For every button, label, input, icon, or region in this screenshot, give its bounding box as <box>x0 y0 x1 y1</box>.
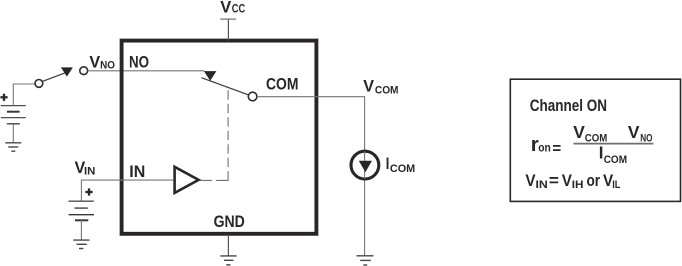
formula r_on = <box>531 134 561 158</box>
svg-text:COM: COM <box>585 133 608 145</box>
battery B2 <box>69 201 94 220</box>
current source arrow <box>359 161 372 173</box>
formula fraction bar <box>574 143 654 145</box>
ground GND2 <box>73 240 89 248</box>
svg-text:NO: NO <box>100 60 115 72</box>
svg-text:V: V <box>573 122 585 142</box>
note box <box>510 79 680 201</box>
svg-text:NO: NO <box>129 53 149 71</box>
switch S1 arrowhead <box>61 67 73 76</box>
analog switch S2 COM circle <box>248 92 257 101</box>
svg-text:COM: COM <box>390 163 415 175</box>
IC U1 box <box>122 41 317 234</box>
switch S1 blade <box>43 73 66 82</box>
buffer driver A1 <box>175 167 199 193</box>
formula denominator ICOM <box>599 142 627 166</box>
ground GND4 (below U1) <box>220 256 236 265</box>
svg-text:on: on <box>538 142 551 154</box>
battery B1 (VNO source) <box>1 106 26 124</box>
switch S1 pole circle <box>35 80 43 88</box>
wire VIN to IN pin <box>81 180 173 201</box>
current source ICOM circle <box>351 151 379 179</box>
svg-text:IN: IN <box>129 163 145 181</box>
svg-text:IN: IN <box>84 166 95 178</box>
svg-text:COM: COM <box>266 76 298 94</box>
svg-text:or: or <box>587 172 601 190</box>
node VIN label <box>75 159 96 178</box>
power VCC label <box>220 0 245 16</box>
svg-text:Channel ON: Channel ON <box>530 97 607 115</box>
svg-text:COM: COM <box>375 85 399 97</box>
analog switch S2 arrowhead <box>204 71 217 81</box>
ground GND3 (below current source) <box>357 256 374 265</box>
svg-text:V: V <box>89 54 100 72</box>
svg-text:V: V <box>220 0 231 16</box>
formula numerator VNO <box>628 122 653 145</box>
svg-text:=: = <box>549 172 559 190</box>
formula numerator VCOM <box>573 122 607 145</box>
battery B2 (VIN source) plus sign <box>85 188 92 195</box>
svg-text:IH: IH <box>572 179 584 191</box>
svg-text:IN: IN <box>536 179 548 191</box>
svg-text:V: V <box>628 122 640 142</box>
svg-text:COM: COM <box>604 154 627 166</box>
svg-text:GND: GND <box>214 213 245 231</box>
label ICOM <box>386 155 415 175</box>
svg-text:CC: CC <box>232 4 246 16</box>
wire VCC to U1 top <box>227 19 229 40</box>
ground GND1 <box>5 143 21 151</box>
current source inner wire <box>364 152 366 179</box>
svg-text:V: V <box>525 172 535 190</box>
wire battery B1 to switch pole <box>13 84 35 106</box>
node VCOM label <box>363 78 398 97</box>
node VNO label <box>89 54 115 72</box>
dashed control line from buffer to switch <box>200 90 228 180</box>
wire battery B1 to ground <box>12 124 14 143</box>
note text VIN = VIH or VIL <box>525 172 620 191</box>
svg-text:I: I <box>386 155 390 173</box>
VCC terminal bar <box>220 18 236 20</box>
wire COM to VCOM corner and down to current source <box>257 97 365 256</box>
switch S1 throw circle (node VNO) <box>80 67 88 75</box>
wire U1 GND pin to ground <box>227 236 229 256</box>
wire battery B2 to ground <box>80 220 82 240</box>
svg-text:V: V <box>363 78 374 96</box>
svg-text:=: = <box>552 141 561 158</box>
battery B1 plus sign <box>0 94 7 101</box>
svg-text:NO: NO <box>640 133 653 145</box>
analog switch S2 blade <box>201 78 248 95</box>
svg-text:IL: IL <box>612 179 620 191</box>
svg-text:V: V <box>562 172 572 190</box>
wire VNO to NO pin and switch contact <box>88 70 205 72</box>
